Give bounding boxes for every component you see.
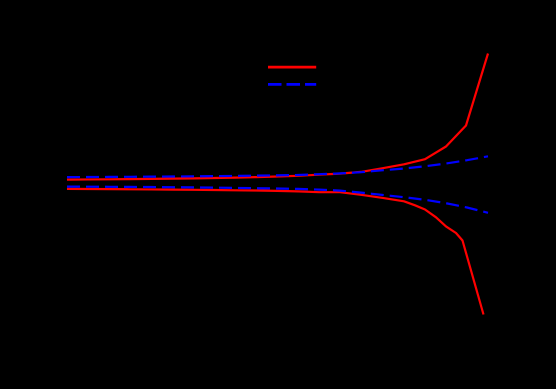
legend blue dashed line bbox=[268, 83, 316, 86]
blue lower dashed curve bbox=[67, 187, 488, 213]
red lower curve bbox=[67, 189, 484, 315]
red upper curve bbox=[67, 54, 488, 180]
legend red solid line bbox=[268, 66, 316, 69]
blue upper dashed curve bbox=[67, 156, 488, 177]
